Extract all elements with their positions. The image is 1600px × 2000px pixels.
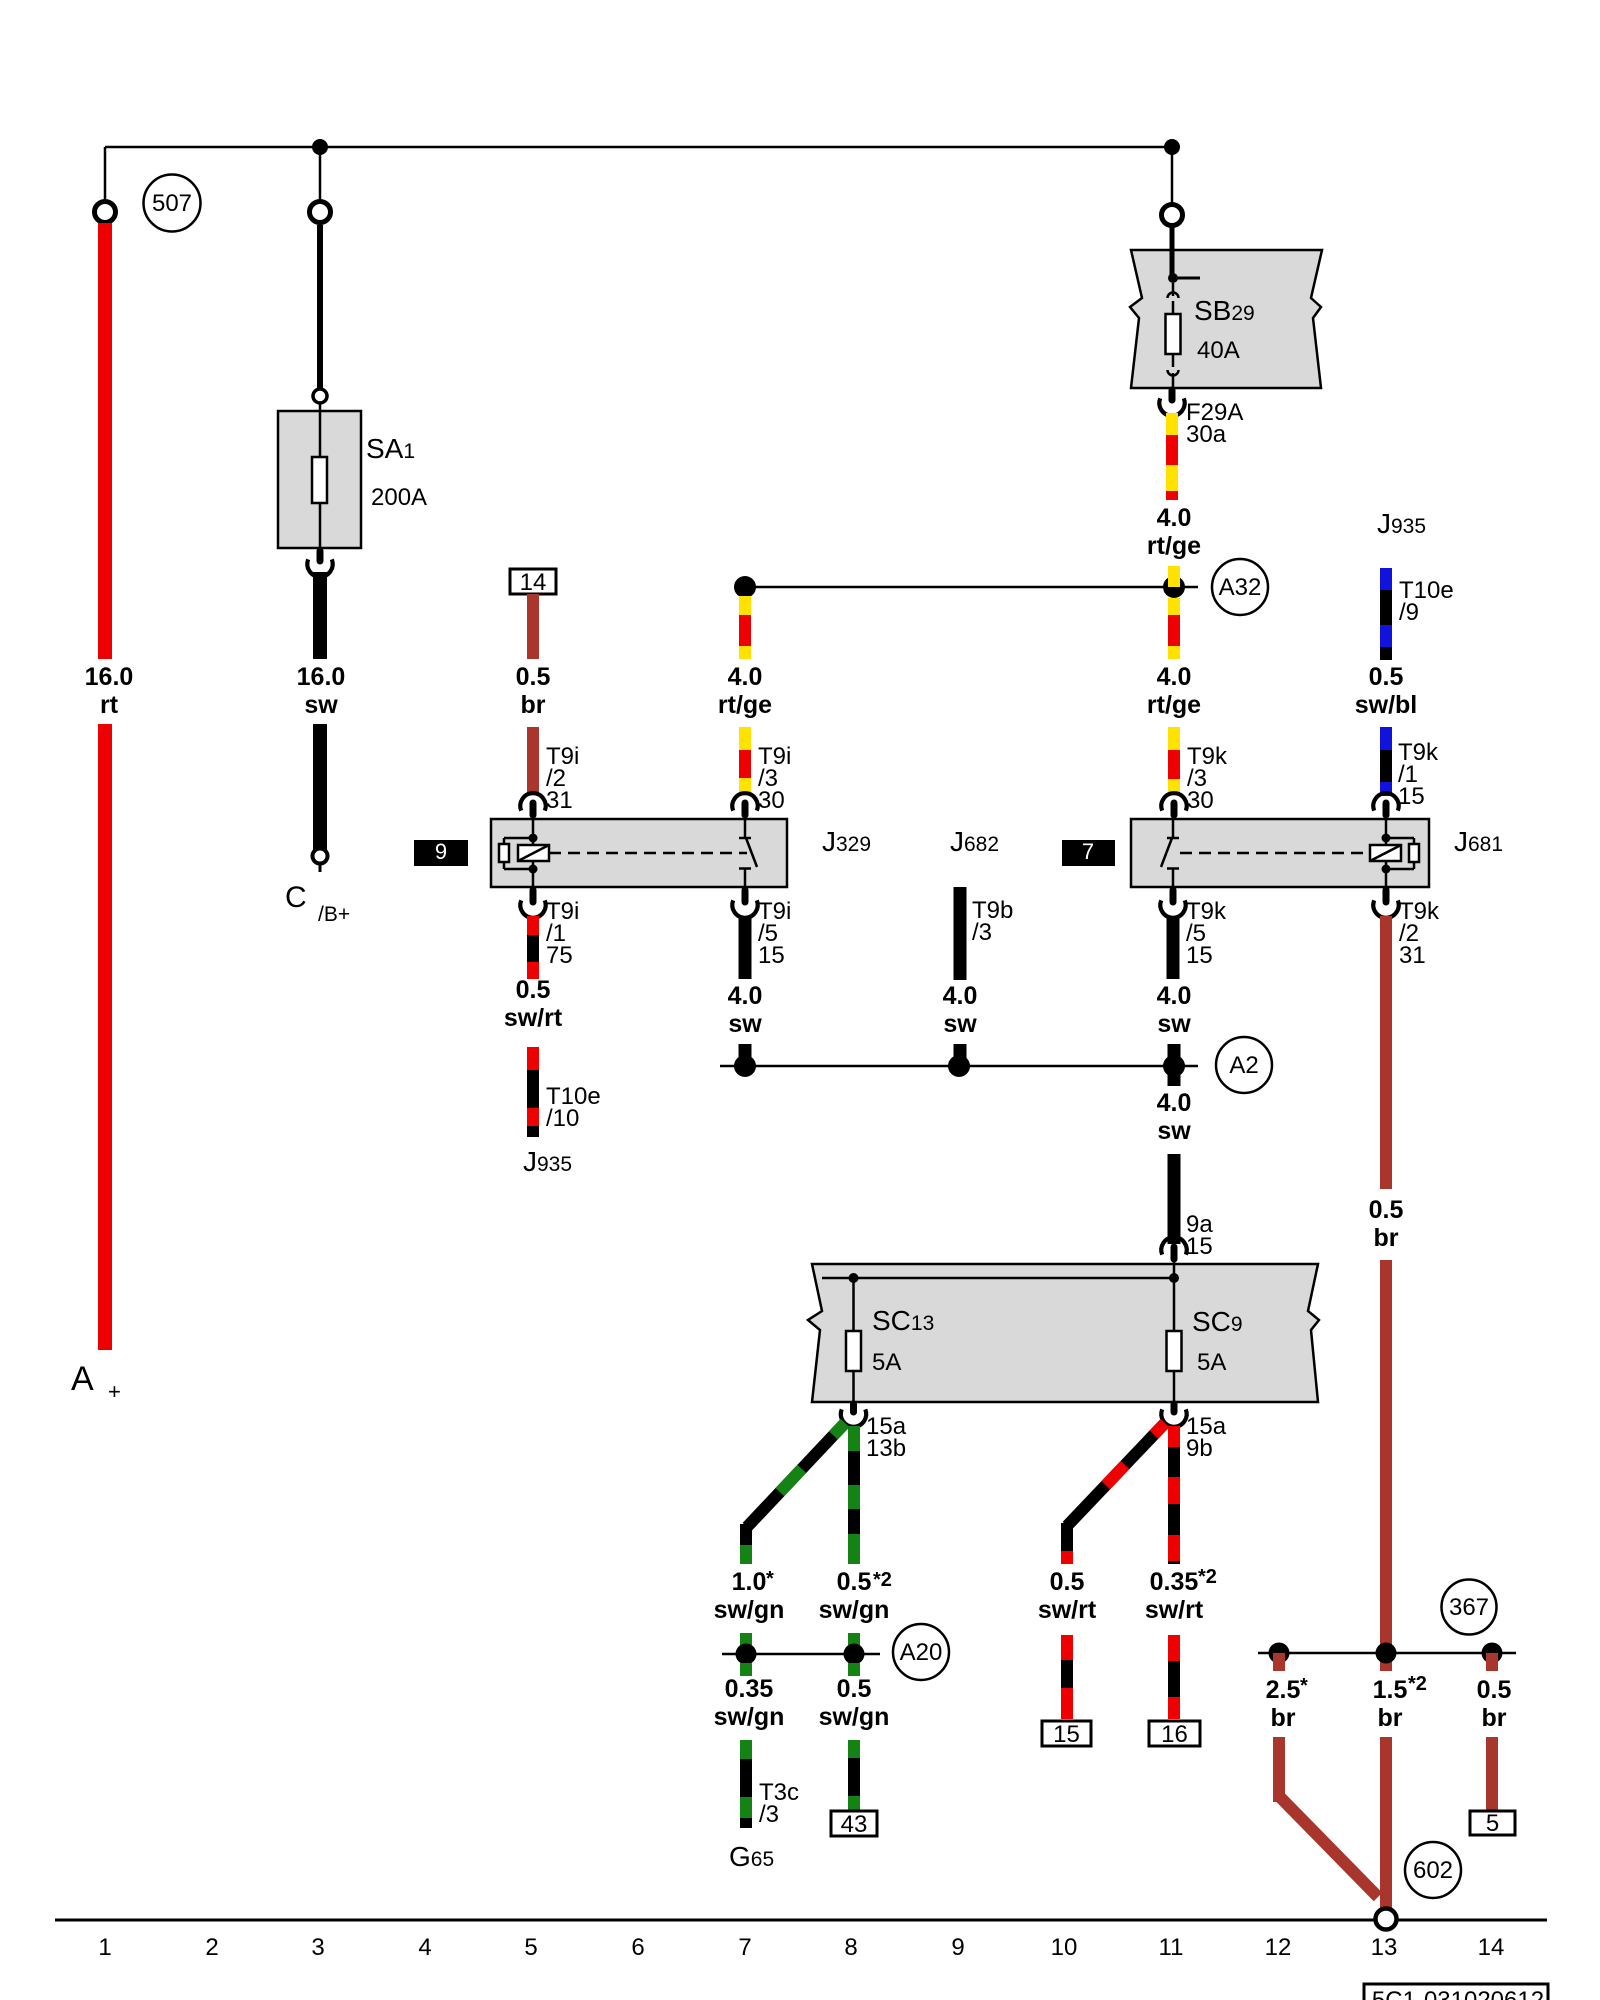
svg-text:0.35: 0.35 (725, 1675, 774, 1703)
svg-text:507: 507 (152, 190, 192, 217)
svg-text:0.5: 0.5 (516, 663, 551, 691)
internal supply rail (822, 1277, 1174, 1280)
terminal C /B+ small ring (313, 849, 328, 864)
svg-text:br: br (1374, 1224, 1399, 1252)
node A2 col 11 (1163, 1055, 1185, 1077)
svg-text:*2: *2 (1198, 1566, 1217, 1588)
svg-text:14: 14 (520, 569, 547, 596)
connector cup T9k/3 (1161, 793, 1186, 810)
svg-text:3: 3 (311, 1934, 324, 1961)
svg-text:4.0: 4.0 (1157, 663, 1192, 691)
svg-text:11: 11 (1159, 1934, 1184, 1961)
wire: bus A2 (720, 1065, 1198, 1068)
svg-text:1.5: 1.5 (1373, 1676, 1408, 1704)
wire 0.5 br lower segment (527, 727, 539, 794)
connector cup T9i/3 (732, 793, 757, 810)
svg-text:5: 5 (524, 1934, 537, 1961)
connector cup T9k/1 (1373, 793, 1398, 810)
svg-text:4.0: 4.0 (728, 982, 763, 1010)
svg-text:1: 1 (98, 1934, 111, 1961)
wire: into SB29 (1170, 226, 1175, 252)
connector cup T9i/2 (520, 793, 545, 810)
svg-text:sw: sw (943, 1010, 977, 1038)
wire stub below A2 node (1168, 1066, 1181, 1086)
svg-text:75: 75 (546, 942, 573, 969)
wire stub to node A2 (col 9) (954, 1044, 967, 1066)
svg-text:sw: sw (1157, 1117, 1191, 1145)
pin J329 terminal 75 (530, 890, 537, 902)
svg-text:4.0: 4.0 (1157, 1089, 1192, 1117)
wire 4.0 rt/ge below A32 node (1168, 598, 1180, 615)
pin: SA1 output (317, 551, 324, 561)
pin J681 terminal 30 (1171, 803, 1178, 815)
wire stub to node A2 (col 11) (1168, 1044, 1181, 1066)
wire: bus 367 (ground) (1258, 1652, 1516, 1655)
svg-text:4.0: 4.0 (1157, 982, 1192, 1010)
pin J329 terminal 15 (742, 890, 749, 902)
svg-text:A20: A20 (900, 1639, 943, 1666)
svg-text:7: 7 (1082, 839, 1094, 864)
wire 1.5 br to ground point (1380, 1737, 1392, 1908)
svg-text:43: 43 (841, 1811, 868, 1838)
connector cup T9k/2 (1373, 900, 1398, 917)
svg-text:/10: /10 (546, 1105, 579, 1132)
wire 0.5 sw/bl upper segment (1380, 568, 1392, 590)
pin J681 terminal 15 (1383, 803, 1390, 815)
svg-text:A2: A2 (1229, 1052, 1258, 1079)
mechanical link (dashed) J329 (549, 852, 747, 855)
wire 0.5 sw/rt to T10e/10 (527, 1047, 539, 1070)
svg-text:2.5: 2.5 (1266, 1676, 1301, 1704)
svg-text:C: C (285, 881, 307, 914)
connector cup T9i/5 (732, 900, 757, 917)
wire 0.5 sw/gn to terminal 43 (848, 1740, 860, 1758)
terminal ring SB29 top (1162, 205, 1183, 226)
svg-text:602: 602 (1413, 1857, 1453, 1884)
wire 0.5 sw/bl to T9k/1 (1380, 727, 1392, 750)
svg-text:sw: sw (304, 691, 338, 719)
green stub above A20 node col 7 (740, 1633, 752, 1645)
svg-text:sw: sw (728, 1010, 762, 1038)
brown stub below node col 12 (1273, 1653, 1285, 1671)
wire 0.5 br long upper segment (1380, 916, 1392, 1189)
node on A32 bus column 7 (734, 576, 756, 598)
wire 16.0 sw lower segment (313, 724, 327, 850)
svg-text:13: 13 (1371, 1934, 1398, 1961)
node 602 reference circle (1405, 1842, 1461, 1898)
svg-text:sw: sw (1157, 1010, 1191, 1038)
node A2 col 7 (734, 1055, 756, 1077)
svg-text:30: 30 (1187, 787, 1214, 814)
connector cup T9k/5 (1160, 900, 1185, 917)
svg-text:sw/rt: sw/rt (504, 1004, 563, 1032)
svg-text:0.5: 0.5 (1050, 1568, 1085, 1596)
svg-text:sw/gn: sw/gn (819, 1703, 890, 1731)
SB29 internal feed (1170, 250, 1175, 275)
wire 1.0 sw/gn diagonal from SC13 (747, 1423, 845, 1527)
svg-text:4.0: 4.0 (1157, 504, 1192, 532)
svg-text:5A: 5A (872, 1349, 901, 1376)
svg-text:4.0: 4.0 (728, 663, 763, 691)
svg-text:/3: /3 (972, 919, 992, 946)
wire 0.5 sw/rt upper segment (527, 916, 539, 935)
wire: drop to SB29 terminal (1171, 147, 1174, 205)
svg-text:0.5: 0.5 (1369, 1196, 1404, 1224)
terminal box 15 (1042, 1721, 1091, 1746)
wire 0.5 sw/rt diagonal from SC9 (1067, 1423, 1165, 1526)
svg-text:*2: *2 (873, 1569, 892, 1591)
terminal box 16 (1149, 1721, 1200, 1746)
fuse SC13 5A (852, 1278, 855, 1331)
node: junction on top bus at column 3 (312, 139, 328, 155)
svg-text:rt/ge: rt/ge (1147, 532, 1201, 560)
wire: bottom reference rail (55, 1919, 1547, 1922)
node 367 reference circle (1442, 1580, 1497, 1635)
green stub above A20 node col 8 (848, 1633, 860, 1645)
svg-text:10: 10 (1051, 1934, 1078, 1961)
wire 4.0 rt/ge to T9i/3 (739, 727, 751, 750)
tag 7 (black relay position label) (1062, 840, 1115, 866)
svg-text:31: 31 (1399, 942, 1426, 969)
svg-text:sw/gn: sw/gn (714, 1703, 785, 1731)
svg-text:2: 2 (205, 1934, 218, 1961)
terminal box 5 (1470, 1811, 1515, 1835)
svg-text:8: 8 (844, 1934, 857, 1961)
connector cup below SA1 (307, 559, 332, 576)
svg-text:13b: 13b (866, 1435, 906, 1462)
svg-text:*: * (766, 1568, 774, 1590)
mechanical link (dashed) J681 (1180, 852, 1369, 855)
svg-text:0.5: 0.5 (516, 976, 551, 1004)
relay J329 coil (532, 819, 535, 838)
connector cup F29A (1159, 398, 1184, 415)
wire 4.0 sw from J682 T9b/3 (954, 887, 967, 980)
svg-text:12: 12 (1265, 1934, 1292, 1961)
node: junction on top bus at column 11 (1164, 139, 1180, 155)
svg-text:15: 15 (1186, 942, 1213, 969)
svg-text:30a: 30a (1186, 421, 1227, 448)
wire 4.0 sw below J681 (1167, 916, 1180, 979)
svg-text:367: 367 (1449, 1594, 1489, 1621)
svg-text:40A: 40A (1197, 337, 1240, 364)
wire 0.35 sw/gn to G65 (740, 1740, 752, 1759)
svg-text:/3: /3 (759, 1801, 779, 1828)
connector cup SC9 15a (1161, 1409, 1186, 1426)
fuse panel box SC (torn edges) (808, 1264, 1319, 1402)
svg-text:9: 9 (435, 839, 447, 864)
svg-text:15: 15 (1398, 783, 1425, 810)
terminal ring A (95, 202, 116, 223)
wire: bus A32 (745, 586, 1198, 589)
node on A32 bus column 11 (1163, 576, 1185, 598)
wire 16.0 rt lower segment (98, 724, 112, 1350)
svg-text:/9: /9 (1399, 599, 1419, 626)
wire stub into A32 node (1168, 566, 1180, 587)
svg-text:rt: rt (100, 691, 119, 719)
wire: top supply bus from terminal A to SB29 (105, 146, 1172, 149)
pin SC9 output (1171, 1404, 1178, 1412)
svg-text:1.0: 1.0 (732, 1568, 767, 1596)
pin SB29 output F29A (1169, 390, 1176, 400)
svg-text:A32: A32 (1219, 574, 1262, 601)
svg-text:0.5: 0.5 (837, 1568, 872, 1596)
svg-text:15: 15 (758, 942, 785, 969)
svg-text:16.0: 16.0 (85, 663, 134, 691)
svg-text:/B+: /B+ (318, 903, 350, 926)
svg-text:0.5: 0.5 (837, 1675, 872, 1703)
svg-text:5C1-031020612: 5C1-031020612 (1372, 1987, 1544, 2000)
green stub below A20 node col 7 (740, 1663, 752, 1676)
relay J329 switch contact (744, 819, 747, 838)
node A20 left (736, 1644, 757, 1665)
node A2 reference circle (1216, 1037, 1272, 1093)
svg-text:16: 16 (1161, 1721, 1188, 1748)
pin J329 terminal 31 (530, 803, 537, 815)
tag 9 (black relay position label) (414, 840, 468, 866)
node A2 col 9 (948, 1055, 970, 1077)
wire 4.0 rt/ge below SB29 (1166, 413, 1178, 435)
fuse holder SB29 box (torn edges) (1130, 250, 1322, 388)
svg-text:30: 30 (758, 787, 785, 814)
svg-text:31: 31 (546, 787, 573, 814)
relay J681 body (1131, 819, 1429, 887)
svg-text:rt/ge: rt/ge (718, 691, 772, 719)
fuse SB29 symbol (1168, 293, 1179, 299)
svg-text:16.0: 16.0 (297, 663, 346, 691)
node A32 reference circle (1212, 559, 1268, 615)
relay J681 switch contact (1172, 819, 1175, 838)
svg-text:sw/rt: sw/rt (1145, 1596, 1204, 1624)
connector cup SC9 input (1161, 1237, 1186, 1254)
relay J329 body (491, 819, 787, 887)
wire 4.0 sw down to SC9 (1168, 1154, 1181, 1244)
wire 2.5 br to ground point (1273, 1737, 1285, 1802)
svg-text:15: 15 (1053, 1721, 1080, 1748)
fuse SC9 5A (1173, 1264, 1176, 1331)
svg-text:5A: 5A (1197, 1349, 1226, 1376)
svg-text:sw/gn: sw/gn (714, 1596, 785, 1624)
connector cup SC13 15a (841, 1409, 866, 1426)
relay J681 coil (1385, 819, 1388, 838)
svg-text:5: 5 (1486, 1810, 1499, 1837)
wire 16.0 rt (battery +) upper segment (98, 223, 112, 659)
svg-text:9b: 9b (1186, 1435, 1213, 1462)
svg-text:0.5: 0.5 (1369, 663, 1404, 691)
wire: bus A20 (722, 1653, 880, 1656)
fuse SA1 200A box (278, 411, 361, 548)
svg-text:rt/ge: rt/ge (1147, 691, 1201, 719)
wire 4.0 sw below J329 (739, 916, 752, 979)
terminal box 14 (510, 569, 556, 594)
svg-text:9: 9 (951, 1934, 964, 1961)
wire 4.0 rt/ge to T9k/3 (1168, 727, 1180, 750)
svg-text:200A: 200A (371, 484, 427, 511)
node 367 col 12 (1269, 1643, 1290, 1664)
wire 0.35 sw/rt vertical below SC9 (1168, 1426, 1180, 1564)
svg-text:4: 4 (418, 1934, 431, 1961)
svg-text:sw/bl: sw/bl (1355, 691, 1418, 719)
svg-text:14: 14 (1478, 1934, 1505, 1961)
node A20 reference circle (893, 1624, 949, 1680)
pin J329 terminal 30 (742, 803, 749, 815)
svg-text:0.5: 0.5 (1477, 1676, 1512, 1704)
svg-text:6: 6 (631, 1934, 644, 1961)
svg-text:+: + (108, 1379, 121, 1404)
brown stub below node col 14 (1486, 1653, 1498, 1671)
svg-text:7: 7 (738, 1934, 751, 1961)
wire 0.5 br upper segment (527, 594, 539, 659)
pin SC13 output (850, 1404, 857, 1412)
pin into fuse box (1171, 1247, 1178, 1259)
svg-text:15: 15 (1186, 1233, 1213, 1260)
wire 0.5 sw/rt to terminal 15 (1061, 1635, 1073, 1660)
terminal box 43 (831, 1811, 877, 1836)
node 507 reference circle (144, 175, 201, 232)
svg-text:A: A (71, 1360, 94, 1398)
svg-text:*: * (1300, 1675, 1308, 1697)
svg-text:0.35: 0.35 (1150, 1568, 1199, 1596)
wire: SA1 feed (thick) (317, 225, 323, 389)
wire: drop to battery terminal A (104, 147, 107, 202)
wire 0.35 sw/rt to terminal 16 (1168, 1635, 1180, 1661)
wire 4.0 rt/ge below A32 node (739, 596, 751, 615)
node 367 col 14 (1482, 1643, 1503, 1664)
svg-text:br: br (521, 691, 546, 719)
wire stub to node A2 (739, 1044, 752, 1066)
ground terminal ring 602 (1376, 1909, 1397, 1930)
node: small terminal above SA1 (313, 389, 327, 403)
terminal ring SA1 top (310, 202, 331, 223)
wire: drop to SA1 terminal (319, 147, 322, 202)
wire 0.5 br to node 367 (1380, 1260, 1392, 1671)
connector cup T9i/1 (520, 900, 545, 917)
wire 0.5 sw/gn vertical below SC13 (848, 1426, 860, 1564)
svg-text:br: br (1378, 1704, 1403, 1732)
svg-text:sw/rt: sw/rt (1038, 1596, 1097, 1624)
svg-text:br: br (1482, 1704, 1507, 1732)
svg-text:sw/gn: sw/gn (819, 1596, 890, 1624)
pin J681 terminal 15 (bottom) (1170, 890, 1177, 902)
wire 16.0 sw upper segment (313, 572, 327, 659)
svg-text:*2: *2 (1408, 1673, 1427, 1695)
green stub below A20 node col 8 (848, 1663, 860, 1676)
title block 5C1-031020612 (1364, 1984, 1548, 2000)
node A20 right (844, 1644, 865, 1665)
wire 0.5 br to terminal 5 (1486, 1737, 1498, 1811)
node 367 col 13 (1376, 1643, 1397, 1664)
svg-text:4.0: 4.0 (943, 982, 978, 1010)
pin J681 terminal 31 (1383, 890, 1390, 902)
svg-text:br: br (1271, 1704, 1296, 1732)
